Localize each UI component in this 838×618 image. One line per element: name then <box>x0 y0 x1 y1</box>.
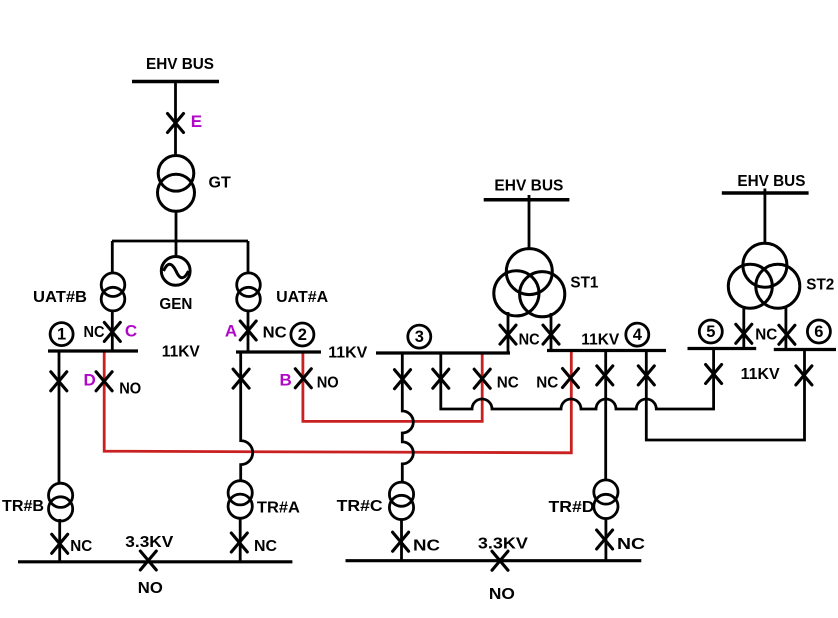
svg-text:NC: NC <box>519 331 540 348</box>
node 5 <box>699 320 722 343</box>
svg-text:1: 1 <box>57 326 66 344</box>
wire TR#D to 3.3KV bus <box>605 519 608 561</box>
breaker NC below TR#A <box>231 533 247 552</box>
breaker on interconnector at bus6 <box>796 366 812 385</box>
breaker E <box>168 114 184 133</box>
3.3KV bus bar left <box>18 560 292 563</box>
breaker NC (ST2 left) <box>736 324 752 343</box>
breaker NC on red tie B at bus3 <box>474 369 490 388</box>
wire ST1 right leg to bus4 <box>550 313 553 351</box>
wire bus4 breaker down, along, up to bus6 <box>646 350 804 441</box>
svg-text:TR#A: TR#A <box>257 499 300 516</box>
breaker NC (ST2 right) <box>779 325 795 344</box>
svg-text:NC: NC <box>254 538 277 555</box>
node 2 <box>291 323 314 346</box>
breaker A (NC) <box>240 321 256 340</box>
node 3 <box>408 325 431 348</box>
breaker NC below TR#B <box>52 534 68 553</box>
svg-text:11KV: 11KV <box>741 366 780 383</box>
breaker on TR#C feeder <box>395 370 411 389</box>
svg-text:TR#B: TR#B <box>2 498 44 515</box>
breaker NC below TR#C <box>393 532 409 551</box>
breaker NC (ST1 right) <box>543 325 559 344</box>
wire bus2 to TR#A with hop over red tie <box>241 352 253 481</box>
wire TR#C to 3.3KV bus <box>400 520 403 561</box>
transformer UAT#B <box>101 273 125 311</box>
wire UAT#A to bus2 <box>247 311 250 352</box>
svg-text:NO: NO <box>119 381 141 398</box>
breaker on TR#B feeder <box>51 372 67 391</box>
wire GT to junction <box>175 211 178 241</box>
svg-text:C: C <box>125 321 137 340</box>
svg-text:EHV BUS: EHV BUS <box>737 173 805 190</box>
svg-text:NC: NC <box>70 538 92 555</box>
bus 4 <box>547 349 666 352</box>
svg-text:5: 5 <box>706 323 715 341</box>
bus 1 <box>48 349 138 352</box>
svg-text:UAT#B: UAT#B <box>33 289 87 306</box>
svg-text:ST2: ST2 <box>806 276 834 293</box>
svg-text:TR#C: TR#C <box>337 498 383 515</box>
svg-text:TR#D: TR#D <box>549 499 595 516</box>
breaker B (NO) on red tie <box>295 369 311 388</box>
svg-text:NC: NC <box>413 538 441 555</box>
wire ST1 left leg to bus3 <box>507 312 510 353</box>
svg-text:11KV: 11KV <box>581 331 619 348</box>
svg-text:GEN: GEN <box>159 296 192 313</box>
transformer ST2 <box>728 243 800 308</box>
svg-text:NC: NC <box>497 374 519 391</box>
wire bus1 to TR#B <box>58 351 61 482</box>
wire bus3 to TR#C with hops over both red ties <box>402 353 413 482</box>
svg-text:6: 6 <box>814 323 823 341</box>
svg-text:D: D <box>84 370 96 389</box>
svg-text:2: 2 <box>298 326 307 344</box>
wire bus4 to TR#D <box>604 351 607 481</box>
node 1 <box>50 323 73 346</box>
svg-text:NC: NC <box>263 324 287 341</box>
transformer TR#D <box>594 480 618 519</box>
svg-text:A: A <box>225 321 237 340</box>
svg-text:NC: NC <box>84 324 105 341</box>
EHV bus bar (middle) <box>484 198 570 202</box>
svg-text:EHV BUS: EHV BUS <box>146 56 214 73</box>
svg-text:3.3KV: 3.3KV <box>125 534 173 551</box>
svg-text:4: 4 <box>633 326 643 344</box>
svg-text:NO: NO <box>489 586 515 603</box>
wire junction horizontal <box>112 240 248 243</box>
svg-text:ST1: ST1 <box>570 275 598 292</box>
svg-text:3: 3 <box>415 328 424 346</box>
svg-text:B: B <box>280 371 292 390</box>
node 4 <box>626 323 649 346</box>
wire to UAT#B <box>111 241 114 274</box>
bus 5 <box>688 347 757 350</box>
svg-text:NC: NC <box>755 326 777 343</box>
wire red tie D: bus1 to bus4 <box>104 351 571 453</box>
transformer TR#B <box>49 483 73 521</box>
generator GEN <box>161 257 190 286</box>
transformer ST1 <box>494 249 565 317</box>
svg-text:3.3KV: 3.3KV <box>478 535 528 552</box>
breaker NC (ST1 left) <box>500 325 516 344</box>
wire EHV bus to ST1 <box>528 195 531 249</box>
svg-text:E: E <box>191 112 202 131</box>
wire TR#B to 3.3KV bus <box>58 519 61 562</box>
breaker on interconnector at bus5 <box>706 365 722 384</box>
wire EHV bus to ST2 <box>764 189 767 245</box>
wire junction to GEN <box>175 241 178 257</box>
svg-text:EHV BUS: EHV BUS <box>494 178 563 195</box>
transformer GT <box>158 156 195 212</box>
svg-text:11KV: 11KV <box>162 344 200 361</box>
svg-text:NO: NO <box>317 374 339 391</box>
svg-text:GT: GT <box>209 175 231 192</box>
bus 2 <box>236 350 321 353</box>
bus 6 <box>774 348 836 351</box>
svg-text:NC: NC <box>617 536 646 553</box>
transformer TR#A <box>228 481 252 519</box>
transformer UAT#A <box>237 273 261 311</box>
wire EHV bus to GT <box>174 82 177 157</box>
svg-text:UAT#A: UAT#A <box>276 289 328 306</box>
wire bus3 breaker down, along, up to bus5 with hops <box>441 349 714 410</box>
svg-text:NO: NO <box>138 580 163 597</box>
wire red tie B: bus2 to bus3 <box>303 352 482 421</box>
svg-text:NC: NC <box>536 374 558 391</box>
wire ST2 left leg to bus5 <box>742 306 745 349</box>
breaker NO on 3.3KV bus left <box>140 551 156 570</box>
transformer TR#C <box>389 482 413 519</box>
breaker NC below TR#D <box>597 530 613 549</box>
breaker on TR#D feeder <box>597 366 613 385</box>
breaker NO on 3.3KV bus right <box>492 551 508 570</box>
bus 3 <box>376 351 510 354</box>
breaker on TR#A feeder <box>233 369 249 388</box>
node 6 <box>807 320 830 343</box>
3.3KV bus bar right <box>346 559 642 562</box>
breaker C (NC) <box>104 322 120 341</box>
wire TR#A to 3.3KV bus <box>239 518 242 562</box>
breaker D (NO) on red tie <box>96 372 112 391</box>
EHV bus bar (left) <box>132 80 219 84</box>
breaker NC on red tie D at bus4 <box>563 369 579 388</box>
breaker on interconnector at bus4 <box>638 366 654 385</box>
wire to UAT#A <box>247 241 250 274</box>
wire UAT#B to bus1 <box>111 311 114 351</box>
wire ST2 right leg to bus6 <box>785 306 788 350</box>
breaker on interconnector at bus3 <box>433 369 449 388</box>
EHV bus bar (right) <box>722 191 809 195</box>
svg-text:11KV: 11KV <box>328 345 367 362</box>
